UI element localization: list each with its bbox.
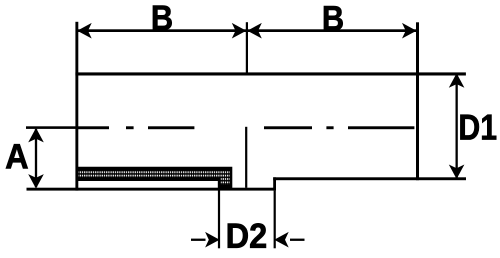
body bottom-left edge with A extension	[27, 188, 277, 191]
body right edge with B right extension line	[416, 22, 419, 180]
threaded band checker strip	[78, 170, 229, 178]
A top extension line	[26, 126, 77, 129]
centerline dash 4	[348, 126, 414, 129]
A dimension line	[35, 129, 37, 187]
dimension line B right segment	[246, 29, 416, 32]
threaded band outline	[76, 167, 232, 189]
threaded band end block checker	[221, 170, 230, 185]
arrowhead bowtie right (points left)	[247, 23, 261, 39]
arrowhead bowtie left (points right)	[232, 23, 247, 39]
D2 left arrowhead (points right)	[205, 232, 220, 248]
D2 right arrow tail	[290, 239, 305, 241]
D2 right arrowhead (points left)	[274, 232, 289, 248]
svg-text:D1: D1	[458, 108, 497, 148]
D2 left arrow tail	[191, 239, 206, 241]
arrowhead B far left	[77, 23, 92, 39]
body left edge with B left extension line	[75, 22, 78, 191]
body bottom-right edge with D1 bottom extension	[273, 177, 466, 180]
body top edge with D1 top extension	[75, 72, 466, 75]
D2 right extension line	[274, 191, 276, 249]
D1 dimension line	[456, 75, 458, 178]
centerline dash 1	[77, 126, 109, 129]
D1 arrowhead up	[449, 73, 465, 88]
center extension line between B arrows	[246, 22, 248, 72]
D2 left extension line	[218, 179, 220, 249]
svg-text:B: B	[322, 0, 344, 38]
dimension line B left segment	[77, 29, 246, 32]
A arrowhead down	[28, 174, 44, 189]
D1 arrowhead down	[449, 165, 465, 180]
A arrowhead up	[28, 128, 44, 142]
arrowhead B far right	[402, 23, 417, 39]
centerline dot 2	[326, 126, 333, 129]
body step at socket mouth	[273, 177, 276, 190]
centerline dash 3	[264, 126, 312, 129]
svg-text:A: A	[5, 137, 29, 176]
pipe-end vertical line at center	[245, 127, 247, 188]
svg-text:B: B	[151, 0, 173, 37]
centerline dot 1	[126, 126, 134, 129]
svg-text:D2: D2	[226, 217, 268, 256]
centerline dash 2	[148, 126, 194, 129]
